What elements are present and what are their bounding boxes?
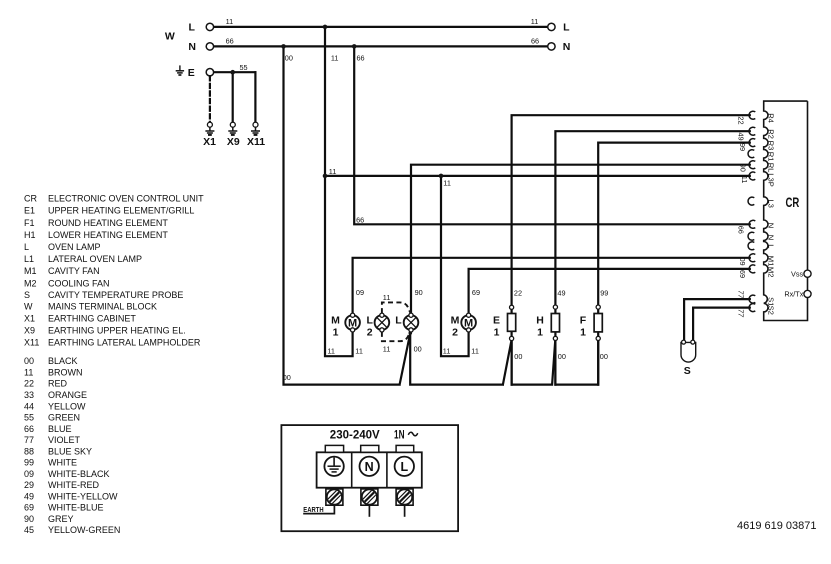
svg-text:M2: M2 (24, 278, 37, 288)
svg-text:11: 11 (24, 368, 33, 378)
screw terminal L (396, 488, 413, 505)
svg-text:00: 00 (283, 373, 291, 382)
svg-text:E1: E1 (24, 206, 35, 216)
svg-text:L: L (563, 22, 570, 34)
svg-text:X11: X11 (24, 337, 39, 347)
svg-text:1: 1 (333, 326, 339, 338)
earthing point X9 (227, 122, 240, 148)
terminal block W detail box (281, 425, 458, 531)
svg-text:YELLOW-GREEN: YELLOW-GREEN (48, 525, 120, 535)
svg-text:1: 1 (580, 326, 586, 338)
svg-text:CAVITY TEMPERATURE PROBE: CAVITY TEMPERATURE PROBE (48, 290, 183, 300)
svg-text:L: L (188, 22, 195, 34)
svg-text:22: 22 (737, 116, 746, 124)
terminal tab N (361, 445, 379, 452)
svg-text:LOWER HEATING ELEMENT: LOWER HEATING ELEMENT (48, 230, 168, 240)
wire label 77 at S1 (737, 290, 746, 299)
svg-text:BROWN: BROWN (48, 368, 83, 378)
svg-text:11: 11 (383, 293, 391, 302)
svg-text:M1: M1 (766, 256, 775, 267)
svg-text:ORANGE: ORANGE (48, 390, 87, 400)
svg-text:00: 00 (24, 356, 34, 366)
pin M1 (749, 254, 775, 267)
svg-text:CR: CR (24, 194, 37, 204)
svg-text:77: 77 (24, 435, 34, 445)
svg-text:99: 99 (24, 458, 34, 468)
svg-text:00: 00 (600, 352, 608, 361)
svg-text:UPPER HEATING ELEMENT/GRILL: UPPER HEATING ELEMENT/GRILL (48, 206, 194, 216)
pin R1 (748, 150, 775, 162)
svg-text:66: 66 (24, 424, 34, 434)
pin Rx/Tx (784, 290, 811, 299)
svg-text:YELLOW: YELLOW (48, 401, 86, 411)
svg-text:4619 619 03871: 4619 619 03871 (737, 520, 817, 532)
node E (earth) (188, 63, 256, 79)
heating element F1 (580, 305, 603, 341)
svg-text:EARTHING UPPER HEATING EL.: EARTHING UPPER HEATING EL. (48, 325, 186, 335)
node N (mains neutral rail) (188, 37, 570, 53)
pin L3 (748, 197, 775, 208)
wire below screw N (368, 505, 370, 517)
svg-text:CAVITY FAN: CAVITY FAN (48, 266, 100, 276)
svg-text:L: L (395, 314, 402, 326)
svg-text:L3P: L3P (766, 173, 775, 187)
svg-text:X1: X1 (24, 314, 35, 324)
svg-text:N: N (563, 41, 571, 53)
wire 69 white-blue: M2 to CR pin M2 (469, 269, 750, 315)
svg-text:49: 49 (737, 133, 746, 141)
svg-text:LATERAL OVEN LAMP: LATERAL OVEN LAMP (48, 254, 142, 264)
svg-text:N: N (766, 235, 775, 240)
svg-text:X9: X9 (24, 325, 35, 335)
wire 55 green: E to earthing points X9 X11 (210, 72, 256, 122)
svg-text:00: 00 (514, 352, 522, 361)
svg-text:OVEN LAMP: OVEN LAMP (48, 242, 101, 252)
svg-text:L: L (24, 242, 29, 252)
svg-text:WHITE: WHITE (48, 458, 77, 468)
junction on E wire (230, 70, 235, 75)
svg-text:99: 99 (738, 143, 747, 151)
junction on 11 bus at M2 branch (439, 174, 444, 179)
junction on 11 bus at M1 (323, 174, 328, 179)
mains terminal W label (165, 31, 175, 43)
pin S2 (749, 304, 775, 315)
wire below screw L (404, 505, 406, 517)
wire 77 violet: probe S to CR pin S1 (684, 299, 750, 342)
terminal tab L (396, 445, 414, 452)
svg-text:09: 09 (738, 258, 747, 266)
part number (737, 520, 817, 532)
svg-text:44: 44 (24, 401, 34, 411)
wire label 11 at L3P (740, 176, 749, 184)
wire 66 blue: N rail to CR pin N (354, 46, 750, 224)
svg-text:BLUE: BLUE (48, 424, 72, 434)
wire label 77 at S2 (737, 309, 746, 318)
pin R3 (749, 139, 775, 151)
earthing point X11 (247, 122, 265, 148)
svg-text:N: N (766, 223, 775, 228)
pin S1 (749, 295, 775, 306)
pin R4 (749, 111, 775, 123)
svg-text:11: 11 (226, 17, 234, 26)
svg-text:WHITE-BLUE: WHITE-BLUE (48, 503, 104, 513)
svg-text:S: S (24, 290, 30, 300)
legend: component designator list (24, 194, 204, 348)
svg-text:69: 69 (472, 288, 480, 297)
lamp L oven lamp (395, 313, 418, 332)
terminal block main body (317, 452, 422, 487)
svg-text:W: W (24, 302, 33, 312)
svg-text:69: 69 (24, 503, 34, 513)
svg-text:X11: X11 (247, 136, 265, 148)
pin M2 (749, 265, 775, 278)
lamp L2 lateral oven lamp (dashed holder) (366, 293, 410, 353)
svg-text:77: 77 (737, 290, 746, 299)
wire 22 red: E1 to CR pin R4 (512, 115, 750, 384)
pin N2 (748, 232, 775, 240)
node L (mains live rail) (188, 17, 570, 33)
svg-text:X9: X9 (227, 136, 240, 148)
svg-text:WHITE-YELLOW: WHITE-YELLOW (48, 491, 118, 501)
svg-text:ROUND HEATING ELEMENT: ROUND HEATING ELEMENT (48, 218, 168, 228)
svg-text:N: N (188, 41, 196, 53)
svg-text:66: 66 (226, 37, 234, 46)
wire label 49 at R2 (737, 133, 746, 141)
svg-text:66: 66 (531, 37, 539, 46)
wire label 99 at R3 (738, 143, 747, 151)
svg-text:11: 11 (331, 54, 339, 63)
svg-text:1N: 1N (394, 430, 405, 442)
wire label 90 at RL (738, 164, 747, 172)
svg-text:WHITE-BLACK: WHITE-BLACK (48, 469, 110, 479)
svg-text:E: E (188, 67, 195, 79)
pin L2cr (748, 242, 775, 250)
svg-text:11: 11 (740, 176, 749, 184)
svg-text:EARTHING LATERAL LAMPHOLDER: EARTHING LATERAL LAMPHOLDER (48, 337, 201, 347)
svg-text:GREEN: GREEN (48, 413, 80, 423)
svg-text:11: 11 (327, 346, 335, 355)
junction on N rail (66) (352, 44, 357, 49)
junction at lamp L bottom (409, 331, 413, 335)
terminal L circle (395, 457, 414, 476)
svg-text:22: 22 (24, 379, 34, 389)
svg-text:11: 11 (471, 346, 479, 355)
svg-text:L: L (400, 460, 408, 474)
svg-text:55: 55 (240, 63, 248, 72)
wire 11 brown: L rail down, bus to CR L3P, branches to M1 and M2 (325, 27, 750, 356)
earth wire and label (303, 505, 334, 514)
svg-text:CR: CR (786, 194, 800, 210)
wire label 66 at N (737, 226, 746, 234)
heating element E1 (493, 305, 516, 340)
svg-text:09: 09 (24, 469, 34, 479)
wire label 69 at M2 (738, 270, 747, 278)
svg-text:22: 22 (514, 288, 522, 297)
svg-text:29: 29 (24, 480, 34, 490)
svg-text:L: L (766, 244, 775, 248)
pin Vss (791, 269, 811, 278)
svg-text:66: 66 (357, 54, 365, 63)
svg-text:F1: F1 (24, 218, 35, 228)
svg-text:W: W (165, 31, 175, 43)
legend: wire colour code list (24, 356, 120, 535)
svg-text:11: 11 (443, 179, 451, 188)
svg-text:09: 09 (356, 288, 364, 297)
junction on N rail (00) (281, 44, 286, 49)
earthing point X1 (203, 122, 216, 148)
wire label 22 at R4 (737, 116, 746, 124)
svg-text:88: 88 (24, 446, 34, 456)
svg-text:R3: R3 (766, 141, 775, 151)
svg-text:M: M (451, 314, 460, 326)
svg-text:EARTH: EARTH (303, 505, 323, 514)
svg-text:2: 2 (367, 326, 373, 338)
svg-text:33: 33 (24, 390, 34, 400)
wire 90 grey: lamp L to CR pin RL (411, 165, 750, 316)
terminal N circle (360, 457, 379, 476)
wire 49 white-yellow: H1 to CR pin R2 (555, 131, 749, 384)
svg-text:11: 11 (329, 167, 337, 176)
svg-text:55: 55 (24, 413, 34, 423)
svg-text:99: 99 (600, 288, 608, 297)
svg-text:11: 11 (355, 346, 363, 355)
wire 77 violet: probe S to CR pin S2 (693, 308, 750, 342)
svg-text:00: 00 (414, 344, 422, 353)
svg-text:R1: R1 (766, 152, 775, 162)
svg-text:49: 49 (557, 288, 565, 297)
junction on L rail (323, 25, 328, 30)
terminal tab earth (325, 445, 343, 452)
svg-text:S2: S2 (766, 306, 775, 315)
svg-text:VIOLET: VIOLET (48, 435, 81, 445)
motor M1 cavity fan (331, 313, 360, 338)
svg-text:H: H (536, 314, 544, 326)
wire 00 black: N rail to bottom bus feeding L, E1, H1, F1 returns (283, 46, 608, 384)
svg-text:H1: H1 (24, 230, 36, 240)
pin L3P (749, 172, 775, 187)
svg-text:Vss: Vss (791, 269, 804, 278)
probe S cavity temperature probe (681, 340, 696, 377)
svg-text:90: 90 (738, 164, 747, 172)
wire 09 white-black: M1 to CR pin M1 (353, 258, 750, 316)
svg-text:M1: M1 (24, 266, 37, 276)
svg-text:MAINS TERMINAL BLOCK: MAINS TERMINAL BLOCK (48, 302, 157, 312)
svg-text:L1: L1 (24, 254, 34, 264)
svg-text:L3: L3 (766, 199, 775, 207)
wire label 09 at M1 (738, 258, 747, 266)
svg-text:11: 11 (383, 344, 391, 353)
svg-text:EARTHING CABINET: EARTHING CABINET (48, 314, 136, 324)
svg-text:R2: R2 (766, 129, 775, 139)
svg-text:00: 00 (285, 54, 293, 63)
svg-text:RED: RED (48, 379, 68, 389)
screw terminal earth (326, 488, 343, 505)
svg-text:X1: X1 (203, 136, 216, 148)
svg-text:BLACK: BLACK (48, 356, 78, 366)
motor M2 cooling fan (451, 313, 476, 338)
pin N (749, 220, 775, 228)
svg-text:Rx/Tx: Rx/Tx (784, 290, 803, 299)
svg-text:E: E (493, 314, 500, 326)
svg-text:77: 77 (737, 309, 746, 318)
svg-text:COOLING FAN: COOLING FAN (48, 278, 110, 288)
svg-text:2: 2 (452, 326, 458, 338)
svg-text:ELECTRONIC OVEN CONTROL UNIT: ELECTRONIC OVEN CONTROL UNIT (48, 194, 204, 204)
op-amp CR electronic oven control unit box (764, 101, 808, 320)
svg-text:N: N (365, 460, 374, 474)
svg-text:WHITE-RED: WHITE-RED (48, 480, 99, 490)
pin R2 (749, 127, 775, 139)
svg-text:11: 11 (443, 346, 451, 355)
svg-text:M: M (331, 314, 340, 326)
svg-text:90: 90 (415, 288, 423, 297)
svg-text:M2: M2 (766, 267, 775, 278)
svg-text:GREY: GREY (48, 514, 74, 524)
svg-text:00: 00 (558, 352, 566, 361)
svg-text:90: 90 (24, 514, 34, 524)
svg-text:66: 66 (356, 215, 364, 224)
svg-text:F: F (580, 314, 587, 326)
ground symbol at E (176, 65, 184, 75)
svg-text:11: 11 (531, 17, 539, 26)
svg-text:RL: RL (766, 163, 775, 173)
earth terminal symbol (324, 457, 343, 476)
svg-text:45: 45 (24, 525, 34, 535)
svg-text:1: 1 (537, 326, 543, 338)
svg-text:1: 1 (494, 326, 500, 338)
svg-text:R4: R4 (766, 113, 775, 123)
svg-text:230-240V: 230-240V (330, 430, 380, 442)
svg-text:49: 49 (24, 491, 34, 501)
wire 99 white: F1 to CR pin R3 (598, 143, 750, 385)
svg-text:69: 69 (738, 270, 747, 278)
pin RL (749, 161, 775, 173)
svg-text:BLUE SKY: BLUE SKY (48, 446, 92, 456)
screw terminal N (361, 488, 378, 505)
svg-text:L: L (366, 314, 373, 326)
heating element H1 (536, 305, 559, 341)
svg-text:66: 66 (737, 226, 746, 234)
svg-text:S: S (684, 365, 691, 377)
